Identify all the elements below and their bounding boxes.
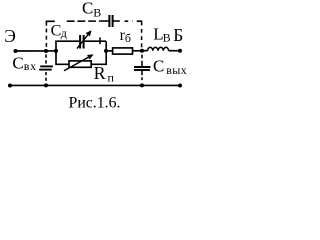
tick mark on Cd right lead (99, 37, 101, 44)
node B junction dot (loop left) (54, 49, 58, 53)
svg-text:п: п (108, 70, 115, 84)
wire: CB left lead (100, 20, 108, 22)
dashed feedback box: top-left corner (46, 21, 54, 26)
resistor Rp body (variable) (69, 61, 91, 67)
dashed wire: CB to top-right corner (125, 20, 133, 22)
terminal dot bottom-left (8, 84, 12, 88)
svg-text:б: б (125, 31, 131, 45)
wire: loop left vertical and top lead to Cd (56, 41, 80, 51)
inductor LB coil (148, 47, 169, 50)
wire: rb to node D (133, 50, 143, 52)
svg-text:С: С (82, 0, 93, 18)
svg-text:Э: Э (4, 26, 16, 46)
terminal dot bottom-right (178, 84, 182, 88)
wire: node C to rb (106, 50, 113, 52)
node C junction dot (loop right) (104, 49, 108, 53)
dashed wire: top horizontal to CB (67, 20, 100, 22)
capacitor CB plates (109, 15, 112, 27)
dashed feedback box: top-right corner (137, 21, 142, 25)
dashed wire: right vertical down to node D (141, 29, 143, 49)
junction dot: Cvx to rail (44, 83, 48, 87)
capacitor Cd plates (variable, diffusion capacitance) (80, 35, 84, 49)
capacitor Cvyh plates (134, 67, 150, 70)
wire: bottom rail (10, 84, 180, 86)
wire: CB right lead (113, 20, 119, 22)
svg-text:R: R (94, 63, 106, 83)
dashed wire: Cvyh down to bottom rail (141, 71, 143, 76)
svg-text:С: С (12, 54, 23, 73)
svg-text:д: д (61, 26, 67, 40)
dashed wire: node A down to Cvx (45, 54, 47, 65)
terminal dot Э (14, 49, 18, 53)
svg-text:Б: Б (173, 25, 183, 45)
arrow of variable resistor Rp (64, 55, 92, 71)
resistor rb body (113, 48, 133, 54)
terminal dot Б (178, 49, 182, 53)
svg-text:С: С (51, 22, 62, 39)
wire: coil to terminal Б (169, 50, 180, 52)
node D junction dot (rb / LB / Cvyh / feedback) (140, 49, 144, 53)
arrow of variable capacitor Cd (77, 32, 91, 49)
capacitor Cvx plates (39, 66, 53, 69)
svg-text:вх: вх (24, 59, 37, 73)
wire: node D to inductor LB (142, 50, 148, 52)
wire: loop left lower vertical and lead to Rp (56, 51, 69, 64)
svg-text:С: С (153, 57, 164, 76)
svg-text:В: В (163, 31, 171, 45)
dashed wire: left vertical down to node A (45, 29, 47, 49)
svg-text:Рис.1.6.: Рис.1.6. (69, 95, 121, 112)
junction dot: Cvyh to rail (140, 83, 144, 87)
wire: Rp right lead and loop right vertical (91, 41, 106, 64)
wire: Э terminal to loop left node (16, 50, 57, 52)
dashed wire: node D down to Cvyh (141, 55, 143, 59)
svg-text:вых: вых (166, 63, 187, 77)
svg-text:В: В (93, 5, 101, 19)
wire: Cd right lead (84, 40, 106, 42)
dashed wire: Cvx down to bottom rail (45, 72, 47, 83)
node A junction dot (dashed feedback / Cvx tap) (44, 49, 48, 53)
